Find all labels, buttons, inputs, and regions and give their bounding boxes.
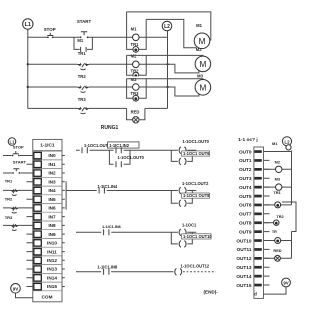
- svg-text:OUT4: OUT4: [239, 185, 252, 190]
- svg-text:IN5: IN5: [48, 197, 56, 202]
- svg-text:IN3: IN3: [48, 179, 56, 184]
- svg-text:TR: TR: [272, 230, 277, 234]
- timer coil TR1: [131, 42, 140, 52]
- terminal IN9: [34, 231, 42, 237]
- svg-text:1-1OC1.OUT0: 1-1OC1.OUT0: [183, 139, 210, 144]
- terminal IN5: [34, 196, 42, 202]
- svg-text:IN15: IN15: [47, 284, 57, 289]
- terminal OUT4: [254, 186, 261, 189]
- wire output rail lower: [291, 232, 293, 259]
- pilot light RED: [131, 110, 140, 123]
- wire program rung 3: [76, 231, 196, 233]
- svg-text:9V: 9V: [13, 286, 20, 291]
- svg-text:OUT6: OUT6: [239, 203, 252, 208]
- coil 1-1OC1.OUT2: [179, 181, 209, 194]
- terminal IN6: [34, 205, 42, 211]
- terminal OUT12: [254, 257, 261, 260]
- svg-text:OUT11: OUT11: [237, 247, 252, 252]
- svg-text:IN9: IN9: [48, 232, 56, 237]
- wire rung 3: [28, 86, 168, 88]
- terminal IN11: [34, 249, 42, 255]
- svg-text:OUT5: OUT5: [239, 194, 252, 199]
- terminal OUT5: [254, 195, 261, 198]
- motor M1: [194, 23, 210, 49]
- timed contact TR1 (input): [3, 179, 34, 196]
- svg-text:(END)-: (END)-: [204, 290, 219, 295]
- svg-text:M3: M3: [275, 177, 281, 182]
- svg-text:1-1OC1 OUT6: 1-1OC1 OUT6: [183, 151, 210, 156]
- svg-text:IN6: IN6: [48, 206, 56, 211]
- svg-text:M2: M2: [196, 47, 202, 52]
- wire motor M1 feed top: [127, 12, 211, 40]
- svg-text:1-1IC1: 1-1IC1: [40, 143, 55, 149]
- contact 1-1IC1.IN2 (rung1, selected): [108, 142, 139, 153]
- wire group1 brackets: [127, 12, 147, 50]
- terminal IN0: [34, 152, 42, 158]
- wire input right pins: [62, 156, 65, 287]
- wire group2 brackets: [127, 55, 147, 75]
- coil 1-1OC1.OUT12: [175, 264, 210, 276]
- svg-text:IN10: IN10: [47, 241, 57, 246]
- svg-text:1-1IC1.IN6: 1-1IC1.IN6: [102, 224, 122, 229]
- wire motor M3 return: [168, 87, 199, 96]
- svg-text:TR1: TR1: [78, 51, 87, 56]
- wire motor M1 feed return: [146, 19, 197, 47]
- terminal IN10: [34, 240, 42, 246]
- timer coil TR2: [131, 68, 140, 78]
- svg-text:IN8: IN8: [48, 223, 56, 228]
- power source L1: [23, 19, 33, 29]
- svg-text:OUT7: OUT7: [239, 212, 252, 217]
- pushbutton START (input): [3, 160, 34, 174]
- wire rung4 dashed: [183, 271, 216, 273]
- contact 1-1IC1.IN6 (rung3): [102, 224, 122, 235]
- svg-text:TR3: TR3: [5, 215, 13, 220]
- svg-text:1-1OC1.OUT12: 1-1OC1.OUT12: [181, 264, 210, 269]
- svg-text:1-1OC1 OUT8: 1-1OC1 OUT8: [183, 193, 210, 198]
- svg-text:1-1OC1.OUT2: 1-1OC1.OUT2: [182, 181, 209, 186]
- timed contact TR3: [78, 97, 90, 114]
- pushbutton STOP (input): [3, 145, 34, 157]
- wire OUT0 to M1: [264, 151, 292, 153]
- terminal OUT11: [254, 248, 261, 251]
- coil M3: [131, 76, 141, 90]
- wire output rail elbow: [282, 202, 296, 232]
- node rail M2 junction: [166, 63, 168, 65]
- terminal IN8: [34, 222, 42, 228]
- terminal IN15: [34, 283, 42, 289]
- svg-text:M: M: [199, 60, 206, 69]
- terminal OUT10: [254, 239, 261, 242]
- coil 1-1OC1.OUT4: [179, 223, 197, 236]
- svg-text:IN11: IN11: [47, 249, 57, 254]
- svg-text:IN13: IN13: [47, 267, 57, 272]
- contact 1-1OC1.OUT0 seal branch: [109, 150, 144, 167]
- svg-text:IN14: IN14: [47, 276, 57, 281]
- svg-text:OUT9: OUT9: [239, 229, 252, 234]
- terminal OUT6: [254, 204, 261, 207]
- svg-text:IN1: IN1: [48, 162, 56, 167]
- terminal IN14: [34, 275, 42, 281]
- terminal OUT14: [254, 275, 261, 278]
- wire output stubs: [264, 152, 270, 286]
- svg-text:OUT1: OUT1: [239, 158, 252, 163]
- power source L2: [162, 21, 172, 31]
- svg-text:RUNG1: RUNG1: [101, 125, 119, 131]
- svg-text:M: M: [199, 37, 206, 46]
- terminal OUT0: [254, 150, 261, 153]
- svg-text:L2: L2: [164, 24, 170, 30]
- wire output rail upper: [291, 151, 293, 205]
- svg-text:TR2: TR2: [5, 196, 13, 201]
- svg-text:L1: L1: [25, 22, 31, 28]
- svg-text:OUT10: OUT10: [236, 238, 252, 243]
- wire left rail: [27, 29, 29, 108]
- coil M2 (output): [264, 159, 292, 172]
- wire program left rail segment: [65, 181, 67, 209]
- timer coil TR3 (output): [264, 238, 292, 244]
- svg-text:d: d: [254, 291, 257, 296]
- wire group3 brackets: [127, 79, 147, 98]
- terminal IN3: [34, 179, 42, 185]
- svg-text:OUT14: OUT14: [236, 274, 252, 279]
- timed contact TR2: [78, 74, 90, 92]
- coil 1-1OC1.OUT6 branch: [171, 150, 210, 165]
- svg-text:IN7: IN7: [48, 214, 56, 219]
- timer coil TR1 (output): [264, 190, 292, 208]
- motor M3: [195, 74, 211, 96]
- svg-text:OUT2: OUT2: [239, 167, 252, 172]
- svg-text:TR2: TR2: [276, 214, 284, 219]
- terminal OUT3: [254, 177, 261, 180]
- svg-text:IN2: IN2: [48, 171, 56, 176]
- wire right rail L2: [167, 31, 169, 109]
- contact 1-1IC1.IN8 (rung4): [97, 265, 118, 275]
- node rung3 junction: [27, 86, 29, 88]
- svg-text:TR1: TR1: [5, 179, 13, 184]
- svg-text:TR1: TR1: [273, 190, 281, 195]
- coil 1-1OC1.OUT10 branch: [171, 232, 212, 247]
- terminal IN7: [34, 214, 42, 220]
- pilot light RED (output): [264, 248, 292, 261]
- svg-text:M1: M1: [196, 23, 202, 28]
- contact 1-1IC1.IN4 (rung2): [97, 184, 118, 194]
- svg-text:IN12: IN12: [47, 258, 57, 263]
- svg-text:IN0: IN0: [48, 153, 56, 158]
- svg-text:1-1OC1 OUT10: 1-1OC1 OUT10: [183, 234, 212, 239]
- terminal OUT8: [254, 221, 261, 224]
- wire input common: [16, 293, 33, 298]
- svg-text:IN4: IN4: [48, 188, 56, 193]
- terminal OUT9: [254, 230, 261, 233]
- svg-text:1-1OC1.OUT0: 1-1OC1.OUT0: [118, 155, 145, 160]
- contact 1-1OC1.OUT0 (rung1): [82, 143, 111, 153]
- output module 1-1OC1: [238, 137, 263, 298]
- terminal IN12: [34, 257, 42, 263]
- coil 1-1OC1.OUT8 branch: [171, 191, 210, 207]
- terminal OUT1: [254, 159, 261, 162]
- svg-text:TR3: TR3: [78, 97, 87, 102]
- svg-text:M3: M3: [197, 74, 203, 79]
- coil M1 (output): [272, 141, 291, 150]
- wire pilot branch: [127, 108, 145, 119]
- wire motor M2 return: [168, 64, 199, 73]
- motor M2: [195, 47, 211, 72]
- svg-text:M1: M1: [131, 27, 137, 32]
- coil M2: [131, 53, 141, 68]
- node rung2 junction: [27, 63, 29, 65]
- svg-text:OUT3: OUT3: [239, 176, 252, 181]
- svg-text:RED: RED: [131, 110, 140, 115]
- timed contact TR2 (input): [3, 196, 34, 213]
- wire motor M2 feed top: [146, 54, 203, 57]
- coil 1-1OC1.OUT0: [179, 139, 209, 154]
- contact M1 seal-in branch: [74, 37, 92, 52]
- power source 9V (input common): [11, 284, 21, 294]
- svg-text:OUT8: OUT8: [239, 221, 252, 226]
- coil M1: [131, 27, 139, 41]
- svg-text:COM: COM: [42, 294, 53, 299]
- wire motor M3 feed top: [146, 78, 203, 81]
- svg-text:STOP: STOP: [44, 27, 56, 32]
- timer coil TR3: [131, 91, 140, 101]
- wire input stubs: [27, 164, 34, 286]
- terminal IN2: [34, 170, 42, 176]
- power source L2 (output side): [282, 137, 291, 146]
- wire rung 2: [28, 63, 168, 65]
- terminal OUT15: [254, 284, 261, 287]
- svg-text:M2: M2: [275, 159, 281, 164]
- timed contact TR1: [78, 51, 90, 69]
- svg-text:START: START: [77, 19, 92, 24]
- svg-text:1-1OC1.OUT0: 1-1OC1.OUT0: [84, 143, 111, 148]
- wire output common: [264, 287, 287, 294]
- pushbutton STOP (NC): [44, 27, 56, 38]
- input module 1-1IC1: [33, 139, 62, 301]
- svg-text:M1: M1: [272, 141, 278, 146]
- timed contact TR3 (input): [3, 215, 34, 230]
- svg-text:1-1IC1.IN4: 1-1IC1.IN4: [97, 184, 118, 189]
- wire program rung 4: [76, 271, 173, 273]
- svg-text:OUT0: OUT0: [239, 149, 252, 154]
- timer coil TR2 (output): [264, 214, 285, 225]
- svg-text:M: M: [199, 83, 206, 92]
- terminal IN1: [34, 161, 42, 167]
- svg-text:OUT15: OUT15: [236, 283, 252, 288]
- svg-text:START: START: [13, 160, 27, 165]
- terminal OUT2: [254, 168, 261, 171]
- svg-text:OUT13: OUT13: [236, 265, 252, 270]
- terminal OUT13: [254, 266, 261, 269]
- wire rung 1: [28, 36, 168, 38]
- svg-text:1-1IC1.IN2: 1-1IC1.IN2: [109, 143, 130, 148]
- svg-text:RED: RED: [273, 248, 281, 253]
- svg-text:OUT12: OUT12: [236, 256, 252, 261]
- svg-text:M1: M1: [77, 38, 83, 43]
- coil M3 (output): [264, 177, 292, 191]
- svg-text:1-1IC1.IN8: 1-1IC1.IN8: [97, 265, 118, 270]
- svg-text:9V: 9V: [283, 281, 288, 286]
- wire rung 4: [28, 107, 168, 109]
- svg-text:TR2: TR2: [78, 74, 87, 79]
- terminal IN4: [34, 187, 42, 193]
- svg-text:1-1 oc? j: 1-1 oc? j: [238, 137, 257, 143]
- wire program rung 2: [66, 190, 196, 192]
- power source L1 (input side): [8, 138, 16, 146]
- power source 9V (output common): [282, 278, 291, 287]
- terminal IN13: [34, 266, 42, 272]
- wire program rung 1: [76, 149, 196, 151]
- svg-text:1-1OC1: 1-1OC1: [182, 223, 197, 228]
- svg-text:STOP: STOP: [13, 145, 24, 150]
- pushbutton START (NO): [77, 19, 92, 38]
- terminal OUT7: [254, 213, 261, 216]
- node rail M3 junction: [166, 86, 168, 88]
- svg-text:L2: L2: [284, 139, 290, 144]
